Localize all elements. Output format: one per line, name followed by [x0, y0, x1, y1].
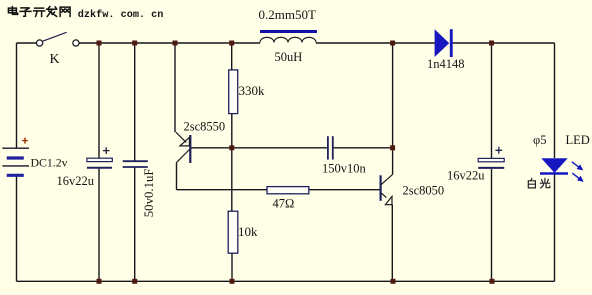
svg-text:50uH: 50uH [275, 50, 303, 64]
wire top rail middle segment [79, 42, 260, 44]
wire top rail inductor-to-diode [316, 42, 435, 44]
svg-text:10k: 10k [238, 224, 258, 239]
wire C1 column upper [98, 43, 100, 158]
svg-text:16v22u: 16v22u [57, 174, 95, 188]
svg-text:φ5: φ5 [533, 133, 546, 147]
wire top rail diode-to-right corner [453, 42, 555, 44]
wire C3 to collector node [333, 147, 392, 149]
junction node dots [97, 41, 495, 284]
wire top rail left segment [17, 42, 37, 44]
svg-text:0.2mm50T: 0.2mm50T [259, 7, 316, 22]
wire R3 to Q2 base [309, 189, 380, 191]
transistor Q1 2sc8550 (PNP) [176, 119, 225, 163]
wire Q1 collector to R3 [177, 189, 268, 191]
网 [60, 7, 70, 16]
wire LED column lower [554, 174, 556, 281]
发 [47, 7, 57, 17]
node top R1 [229, 41, 234, 46]
transistor Q2 2sc8050 (NPN) [381, 174, 445, 204]
node Q1 base / R1-R2 [229, 145, 234, 150]
wire C2 column upper [134, 43, 136, 161]
node top Q1 emitter [173, 41, 178, 46]
wire LED column upper [554, 43, 556, 158]
node bottom Q2 emitter [391, 279, 396, 284]
svg-text:K: K [50, 52, 60, 67]
LED D2 (white 5mm) [533, 133, 590, 181]
svg-text:50v0.1uF: 50v0.1uF [142, 168, 156, 217]
wire Q2 collector column [392, 43, 394, 175]
svg-text:LED: LED [566, 133, 590, 147]
光 [540, 179, 550, 188]
wire bottom rail [17, 280, 555, 282]
node top C2 [132, 41, 137, 46]
wire C2 column lower [134, 168, 136, 282]
resistor R2 10k [228, 211, 258, 253]
node bottom C1 [97, 279, 102, 284]
svg-text:16v22u: 16v22u [447, 168, 485, 182]
node top C4 [489, 41, 494, 46]
开 [34, 8, 45, 16]
svg-text:2sc8050: 2sc8050 [403, 184, 445, 198]
diode D1 1n4148 [427, 29, 465, 71]
resistor R1 330k [229, 70, 265, 114]
wire left edge lower (battery - to bottom rail) [16, 176, 18, 281]
capacitor C1 16v22u (electrolytic) [57, 147, 113, 188]
wire Q2 emitter column [391, 205, 393, 282]
wire Q1 base line [191, 147, 328, 149]
子 [20, 8, 31, 16]
wire C4 column upper [491, 43, 493, 158]
label 白光 (white light) [528, 178, 550, 188]
switch K [37, 32, 80, 67]
watermark logo 电子开发网 [8, 7, 70, 17]
capacitor C4 16v22u (electrolytic, output) [447, 147, 504, 183]
capacitor C2 50v0.1uF (ceramic) [123, 161, 157, 217]
wire Q1 emitter drop [174, 43, 176, 132]
svg-text:47Ω: 47Ω [273, 197, 295, 211]
capacitor C3 150v10n [322, 136, 367, 175]
wire left edge upper (to battery +) [16, 43, 18, 148]
node bottom C4 [490, 279, 495, 284]
node top D1 anode [390, 41, 395, 46]
node top C1 [97, 41, 102, 46]
wire C1 column lower [98, 169, 100, 282]
wire R2 bottom lead [231, 253, 233, 281]
inductor L1 50uH with core bar [259, 7, 318, 64]
白 [528, 178, 535, 188]
node bottom R2 [230, 279, 235, 284]
wire Q1 collector vertical [176, 162, 178, 189]
电 [8, 7, 17, 15]
svg-text:DC1.2v: DC1.2v [31, 155, 68, 169]
wire C4 column lower [491, 169, 493, 281]
svg-text:330k: 330k [239, 83, 266, 98]
svg-text:1n4148: 1n4148 [427, 57, 465, 71]
svg-text:2sc8550: 2sc8550 [184, 119, 226, 133]
battery B1 DC1.2v [2, 138, 67, 176]
node bottom C2 [132, 279, 137, 284]
node C3 / Q2 collector [390, 145, 395, 150]
svg-text:150v10n: 150v10n [322, 162, 367, 176]
wire R1 bottom to R2 top (crosses collector line) [231, 114, 233, 212]
wire R1 top lead [231, 43, 233, 70]
svg-text:dzkfw. com. cn: dzkfw. com. cn [78, 9, 164, 21]
resistor R3 47ohm [267, 187, 309, 211]
